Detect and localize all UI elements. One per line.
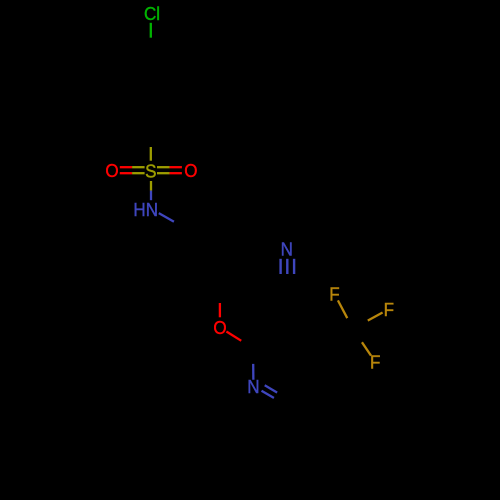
svg-text:O: O <box>213 318 226 339</box>
bond S-N nitrogen half <box>150 191 152 201</box>
nitrile C3-C bond (carbon, near-invisible) <box>286 288 287 329</box>
double bond S=O left line b <box>120 172 132 174</box>
bond N-C(ring2) nitrogen half <box>159 213 174 222</box>
ring 2 phenylene (carbon bonds, near-invisible) <box>167 228 237 289</box>
svg-text:F: F <box>384 299 395 320</box>
bond C-F3 carbon half <box>353 329 362 343</box>
bond N1-C2 pyridine carbon half <box>252 348 254 364</box>
bond N-C(ring2) carbon half <box>174 222 185 228</box>
triple bond C#N line right <box>293 259 295 274</box>
bond O-C2(pyridine) carbon half <box>241 341 253 348</box>
svg-text:O: O <box>184 160 197 181</box>
double bond N1=C6 main line carbon half <box>274 398 287 405</box>
bond C-F2 fluorine half <box>368 313 383 321</box>
double bond N1=C6 inner line nitrogen half <box>265 385 278 392</box>
pyridine ring carbon bonds (near-invisible) <box>253 329 320 406</box>
bond C4-S carbon half <box>150 133 152 147</box>
svg-text:N: N <box>247 377 259 398</box>
bond C-F1 fluorine half <box>338 300 347 318</box>
bond C-F1 carbon half <box>347 318 353 329</box>
bond C-F2 carbon half <box>353 321 368 329</box>
triple bond C#N line left <box>279 259 281 274</box>
bond Cl-C1 green half <box>150 23 152 38</box>
bond C-F3 fluorine half <box>362 342 371 355</box>
double bond N1=C6 inner line carbon half <box>277 393 283 397</box>
bond N1-C2 pyridine nitrogen half <box>252 364 254 380</box>
double bond N1=C6 main line nitrogen half <box>262 391 275 398</box>
bond S-N sulfur half <box>150 181 152 191</box>
triple bond C#N line center <box>286 259 288 274</box>
svg-text:HN: HN <box>133 199 158 220</box>
svg-text:S: S <box>145 161 156 182</box>
ring 1 chlorophenyl (carbon bonds, near-invisible) <box>118 57 184 133</box>
double bond S=O left line a <box>120 166 132 168</box>
svg-text:N: N <box>281 239 293 260</box>
double bond S=O right line b <box>157 172 170 174</box>
svg-text:F: F <box>329 284 340 305</box>
bond C(ring2)-O oxygen half <box>219 303 221 317</box>
svg-text:O: O <box>105 160 118 181</box>
svg-text:F: F <box>370 352 381 373</box>
bond C(ring2)-O carbon half <box>219 289 221 303</box>
svg-text:Cl: Cl <box>144 4 160 25</box>
bond O-C2(pyridine) oxygen half <box>226 332 241 341</box>
bond C4-CF3 (carbon, near-invisible) <box>320 329 353 348</box>
bond Cl-C1 carbon half <box>150 38 152 57</box>
bond C4-S sulfur half <box>150 147 152 161</box>
double bond S=O right line a <box>157 166 170 168</box>
